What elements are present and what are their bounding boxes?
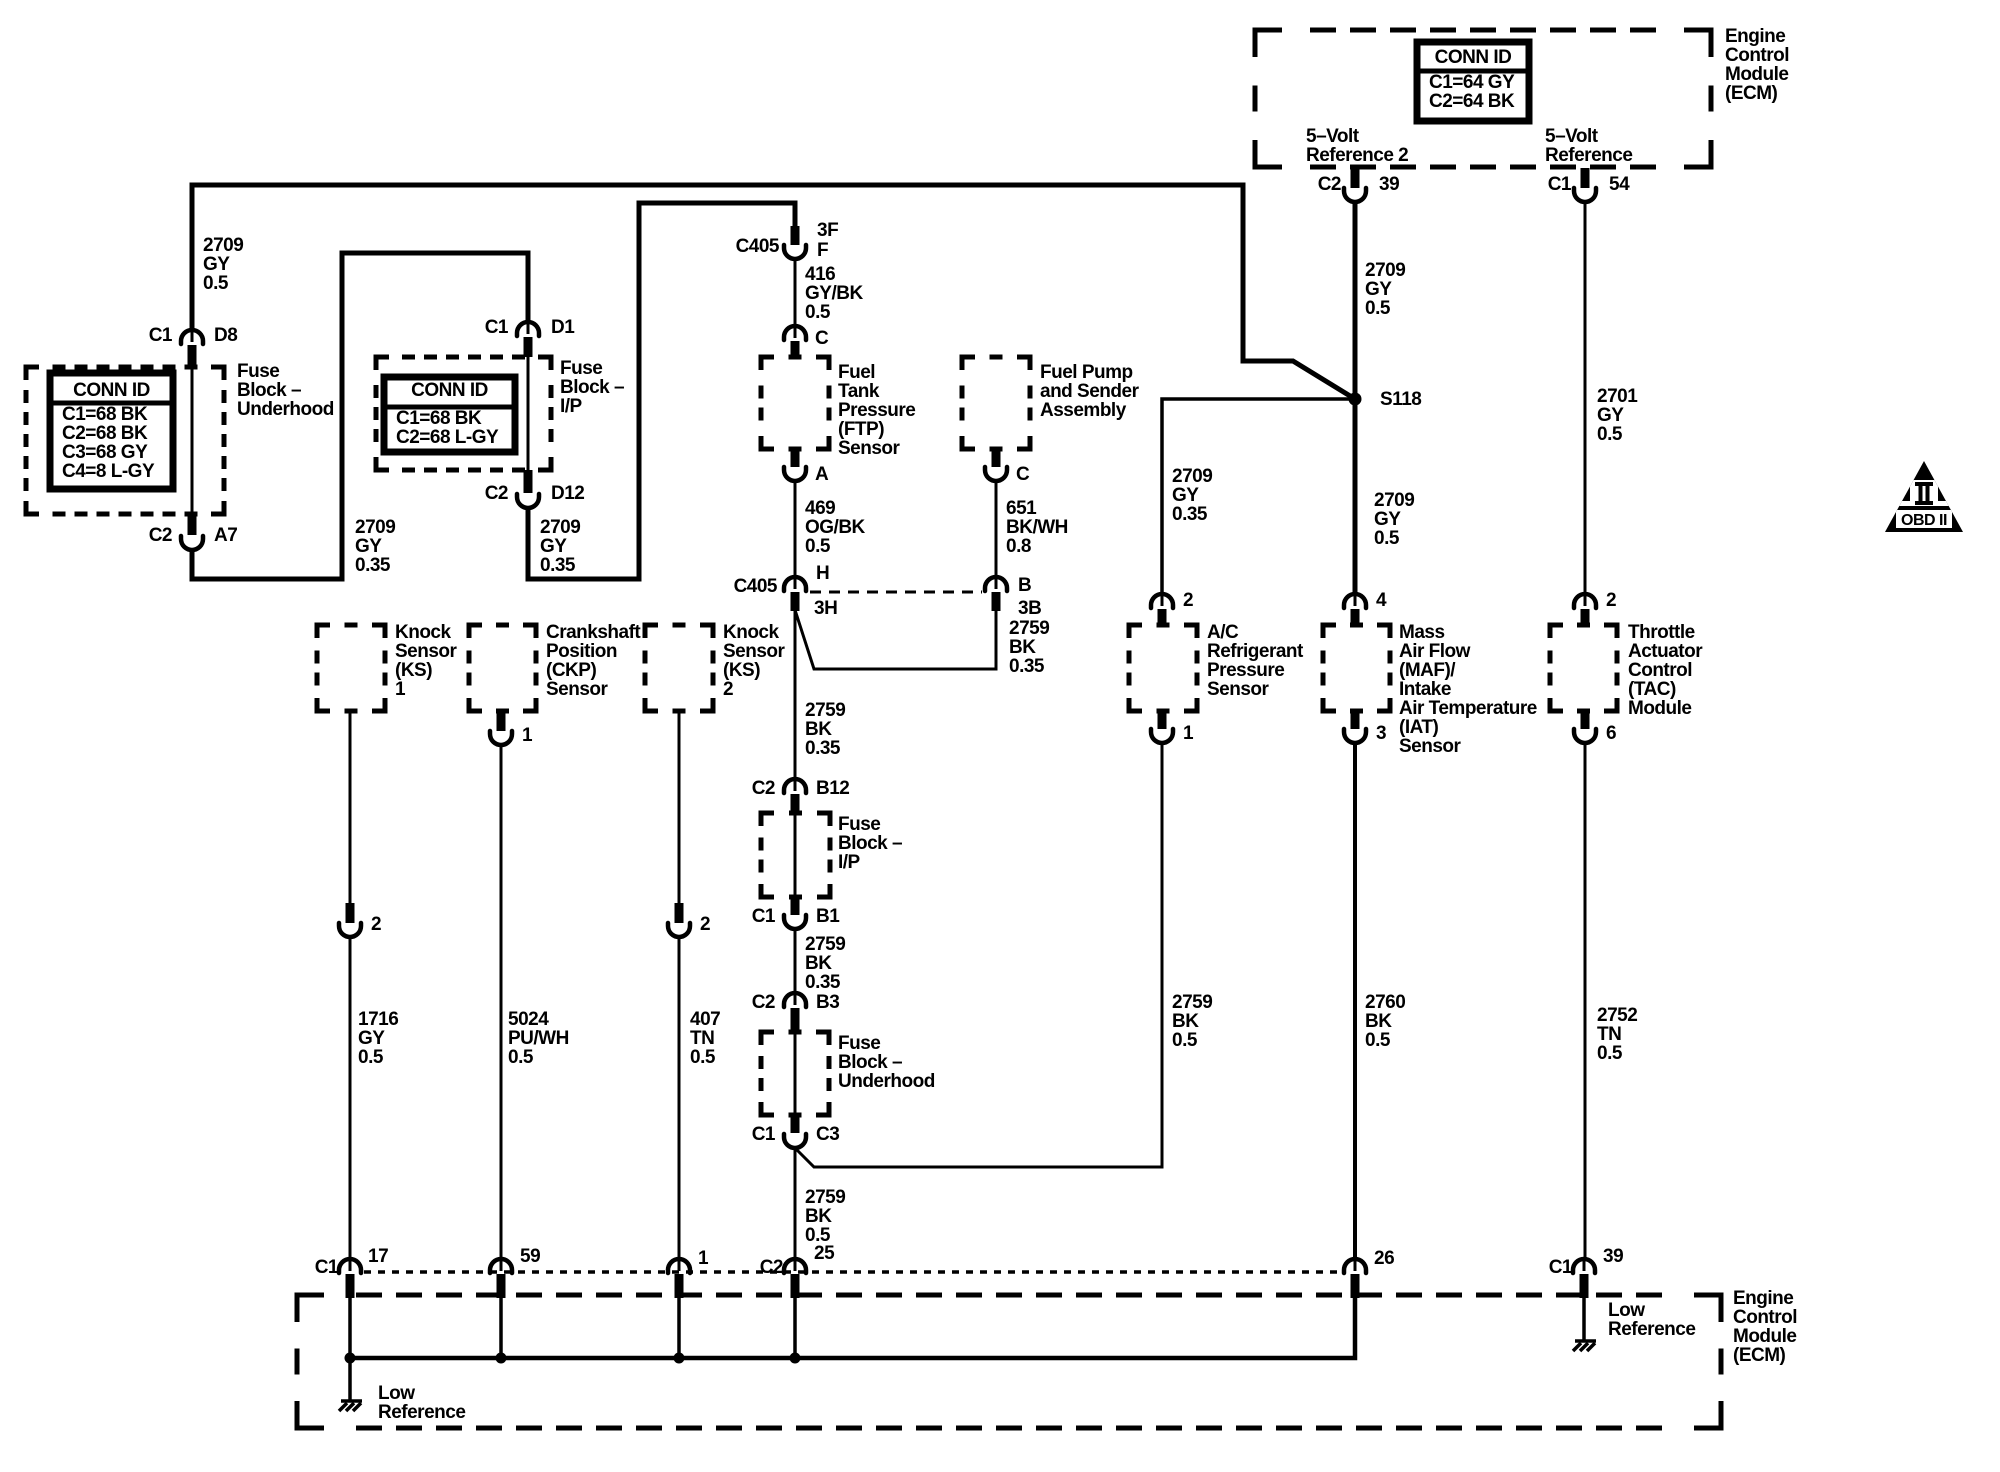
wire low reference bus inside ECM [350,1298,1355,1358]
wire through fuse block underhood B3-C3 [794,1032,797,1115]
label C2 [149,525,172,546]
label C2 [760,1257,783,1278]
svg-text:C1=64 GYC2=64 BK: C1=64 GYC2=64 BK [1429,72,1515,112]
svg-text:C2: C2 [752,992,775,1013]
label C1 [752,906,776,927]
label 4 [1376,590,1387,611]
svg-text:C1: C1 [752,1124,776,1145]
svg-text:C1: C1 [752,906,776,927]
knock sensor 2 box [645,625,713,711]
stub FTP pin A [791,449,800,467]
label 2 [371,914,381,935]
connector C1 C3 [784,1134,806,1148]
connector ECM pin 39 [1573,1258,1595,1273]
stub ECM pin 1 [675,1274,684,1298]
wire 416 GY/BK 0.5 from C405 F to FTP sensor pin C [794,259,797,328]
connector CKP pin 1 [490,731,512,745]
svg-text:1: 1 [522,725,533,746]
label B3 [816,992,839,1013]
label 651 BK/WH 0.8 [1006,498,1068,557]
junction dot pin 17 bus [345,1353,356,1364]
wire 2709 GY 0.35 from fuse block underhood C2 A7 to fuse block I/P C1 D1 [192,253,528,579]
stub fuel pump pin C [992,449,1001,467]
wire from knock sensor 2 to its connector [678,711,681,905]
svg-text:D1: D1 [551,317,575,338]
wire 469 OG/BK 0.5 from FTP sensor pin A to C405 H [794,481,797,579]
label A/C refrigerant pressure sensor [1207,622,1304,700]
svg-text:C1: C1 [315,1257,339,1278]
connector knock sensor 2 pin 2 [668,923,690,937]
connector ECM C1 pin 54 [1574,188,1596,202]
connector ECM pin 1 [668,1258,690,1273]
label 26 [1374,1248,1394,1269]
connector C405 F [784,245,806,259]
connector MAF pin 4 [1344,593,1366,608]
label MAF/IAT sensor [1399,622,1537,757]
stub C1 D8 [188,345,197,367]
stub ECM C2 39 [1351,168,1360,188]
stub C405 F [791,226,800,245]
svg-text:54: 54 [1609,174,1630,195]
svg-text:2: 2 [371,914,381,935]
connector C1 D1 [517,321,539,336]
svg-text:3: 3 [1376,723,1386,744]
label throttle actuator control module [1628,622,1703,719]
svg-text:D8: D8 [214,325,237,346]
wire 2709 GY 0.35 from splice S118 to A/C refrigerant pressure sensor pin 2 [1162,399,1355,596]
label C1 [1548,174,1572,195]
svg-text:1: 1 [698,1248,709,1269]
wire 2759 BK 0.35 from C405 H to fuse block I/P C2 B12 [794,610,797,781]
connector A/C sensor pin 1 [1151,729,1173,743]
label C3 [816,1124,839,1145]
label fuel pump and sender assembly [1040,362,1140,421]
ground low reference left [339,1401,362,1411]
connector C1 B1 [784,915,806,929]
label C [815,328,829,349]
label C2 [485,483,508,504]
label 1 [522,725,533,746]
stub ECM C1 54 [1581,168,1590,188]
label fuse block underhood left [237,361,334,420]
CONN ID table fuse block I/P [384,377,515,452]
label 2759 BK 0.5 [1172,992,1212,1051]
wire ECM pin 59 to bus [499,1298,503,1358]
svg-text:C2: C2 [760,1257,783,1278]
stub A/C sensor pin 2 [1158,609,1167,625]
ECM box top (Engine Control Module) [1255,30,1711,167]
wire ECM pin 39 to ground [1582,1298,1586,1340]
label fuse block I/P middle [838,814,902,873]
label 1 [698,1248,709,1269]
connector C2 A7 [181,536,203,550]
wire through fuse block I/P B12-B1 [794,813,797,897]
wire 651 BK/WH 0.8 from fuel pump pin C to C405 B [995,481,998,579]
stub ECM pin 59 [497,1274,506,1298]
label 2709 GY 0.35 [540,517,580,576]
svg-text:C1: C1 [149,325,173,346]
label fuse block I/P left [560,358,624,417]
CONN ID table fuse block underhood [50,373,173,489]
svg-text:C2: C2 [1318,174,1341,195]
wire ECM pin 25 to bus [793,1298,797,1358]
stub ECM pin 25 [791,1274,800,1298]
svg-text:A: A [815,464,829,485]
fuse block underhood box (left) [26,367,224,514]
label 2 [1183,590,1193,611]
label 2709 GY 0.35 [1172,466,1212,525]
label 2759 BK 0.35 [1009,618,1049,677]
ground low reference right [1573,1341,1596,1351]
label H [816,563,829,584]
fuse block I/P box (middle) [761,813,830,897]
label C1 [149,325,173,346]
label 3F [817,220,838,241]
stub C2 D12 [524,470,533,493]
wire 2709 GY 0.35 from fuse block I/P C2 D12 to C405 F [528,203,795,579]
stub TAC pin 2 [1581,609,1590,625]
label 17 [368,1246,388,1267]
splice S118 [1349,393,1362,406]
CONN ID table ECM [1417,42,1529,121]
fuel tank pressure sensor box [761,357,829,449]
label C1 [752,1124,776,1145]
label 39 [1603,1246,1623,1267]
label 5024 PU/WH 0.5 [508,1009,569,1068]
label B [1018,575,1031,596]
label 59 [520,1246,540,1267]
label 3H [814,598,837,619]
svg-text:OBD II: OBD II [1901,512,1947,529]
svg-text:25: 25 [814,1243,835,1264]
svg-text:A7: A7 [214,525,237,546]
label B12 [816,778,849,799]
label A7 [214,525,237,546]
svg-text:6: 6 [1606,723,1616,744]
connector ECM pin 25 [784,1258,806,1273]
wire through fuse block I/P D1-D12 [527,357,530,470]
label D1 [551,317,575,338]
stub MAF pin 3 [1351,711,1360,729]
label C405 [736,236,780,257]
label C1 [485,317,509,338]
svg-text:C2: C2 [485,483,508,504]
svg-text:39: 39 [1379,174,1399,195]
stub C1 C3 [791,1115,800,1133]
label 416 GY/BK 0.5 [805,264,863,323]
wire 2709 GY 0.5 from ECM C2 39 through S118 to MAF sensor pin 4 [1353,201,1358,596]
dotted ECM connector row line [364,1270,1340,1274]
svg-text:C2: C2 [752,778,775,799]
stub C2 B12 [791,794,800,813]
stub C405 H [791,592,800,611]
wire 407 TN 0.5 from knock sensor 2 pin 2 to ECM pin 1 [678,937,681,1261]
stub C2 B3 [791,1008,800,1032]
connector A/C sensor pin 2 [1151,593,1173,608]
svg-text:C1: C1 [485,317,509,338]
label A [815,464,829,485]
svg-text:2: 2 [1183,590,1193,611]
label crankshaft position sensor [546,622,641,700]
connector FTP pin A [784,467,806,481]
label 407 TN 0.5 [690,1009,720,1068]
wire 2709 GY 0.5 from fuse block underhood C1 D8 to splice S118 [192,185,1355,399]
wire ECM pin 1 to bus [677,1298,681,1358]
stub knock sensor 2 pin 2 [675,903,684,923]
connector TAC pin 2 [1574,593,1596,608]
stub knock sensor 1 pin 2 [346,903,355,923]
svg-text:C: C [1016,464,1030,485]
svg-text:Fuel Pumpand SenderAssembly: Fuel Pumpand SenderAssembly [1040,362,1140,421]
label 5-volt reference [1545,126,1632,166]
connector ECM pin 59 [490,1258,512,1273]
svg-text:F: F [817,240,828,261]
stub C1 D1 [524,337,533,357]
label 1716 GY 0.5 [358,1009,398,1068]
label 25 [814,1243,835,1264]
svg-text:C405: C405 [736,236,780,257]
label 5-volt reference 2 [1306,126,1408,166]
svg-text:C1: C1 [1549,1257,1573,1278]
label C1 [1549,1257,1573,1278]
wire jog from C405 H to C405 B [795,610,996,669]
stub C405 B [992,592,1001,611]
fuse block underhood box (middle) [761,1032,829,1115]
connector ECM C2 pin 39 [1344,188,1366,202]
stub TAC pin 6 [1581,711,1590,729]
svg-text:C1: C1 [1548,174,1572,195]
connector C1 D8 [181,329,203,344]
stub CKP pin 1 [497,711,506,731]
label 2709 GY 0.5 [1365,260,1405,319]
label low reference left [378,1383,465,1423]
label 54 [1609,174,1630,195]
svg-text:59: 59 [520,1246,540,1267]
wire 2752 TN 0.5 from TAC module pin 6 to ECM C1 39 [1584,743,1587,1261]
svg-text:3B: 3B [1018,598,1041,619]
stub C1 B1 [791,897,800,915]
stub A/C sensor pin 1 [1158,711,1167,729]
knock sensor 1 box [317,625,385,711]
label C2 [752,992,775,1013]
wire through fuse block underhood D8-A7 [191,367,194,514]
connector FTP pin C [784,325,806,340]
wire 5024 PU/WH 0.5 from CKP sensor pin 1 to ECM pin 59 [500,745,503,1261]
svg-text:4: 4 [1376,590,1387,611]
label 2760 BK 0.5 [1365,992,1405,1051]
connector ECM pin 26 [1344,1258,1366,1273]
label 39 [1379,174,1399,195]
label 3B [1018,598,1041,619]
label 2759 BK 0.35 [805,700,845,759]
label 2 [700,914,710,935]
svg-text:B1: B1 [816,906,840,927]
svg-text:CONN ID: CONN ID [411,380,488,401]
junction dot pin 1 bus [674,1353,685,1364]
dashed pair line C405 H to B [810,591,982,594]
A/C refrigerant pressure sensor box [1129,625,1197,711]
crankshaft position sensor box [469,625,536,711]
label 2 [1606,590,1616,611]
junction dot pin 25 bus [790,1353,801,1364]
label fuse block underhood middle [838,1033,935,1092]
label engine control module top [1725,26,1789,104]
connector MAF pin 3 [1344,729,1366,743]
throttle actuator control module box [1550,625,1617,711]
svg-text:D12: D12 [551,483,584,504]
svg-text:CONN ID: CONN ID [73,380,150,401]
wire 2759 BK 0.5 from C1 C3 to A/C refrigerant pressure sensor pin 1 [795,743,1162,1167]
label knock sensor 2 [723,622,786,700]
label 3 [1376,723,1386,744]
svg-text:C3: C3 [816,1124,839,1145]
label F [817,240,828,261]
label fuel tank pressure sensor [838,362,915,459]
svg-text:C1=68 BKC2=68 BKC3=68 GYC4=8 L: C1=68 BKC2=68 BKC3=68 GYC4=8 L-GY [62,404,155,482]
fuel pump and sender assembly box [962,357,1030,449]
wire 1716 GY 0.5 from knock sensor 1 pin 2 to ECM pin 17 [349,937,352,1261]
svg-text:B12: B12 [816,778,849,799]
connector TAC pin 6 [1574,729,1596,743]
label 2759 BK 0.35 [805,934,845,993]
fuse block I/P box (left) [376,357,551,470]
label C [1016,464,1030,485]
label D12 [551,483,584,504]
stub MAF pin 4 [1351,609,1360,625]
svg-text:2: 2 [700,914,710,935]
junction dot pin 59 bus [496,1353,507,1364]
MAF/IAT sensor box [1323,625,1390,711]
label C2 [1318,174,1341,195]
label 2752 TN 0.5 [1597,1005,1637,1064]
label 2709 GY 0.35 [355,517,395,576]
wire 2759 BK 0.35 from C1 B1 to C2 B3 [794,929,797,995]
wire 2701 GY 0.5 from ECM C1 54 to TAC module pin 2 [1584,201,1587,596]
svg-text:B3: B3 [816,992,839,1013]
svg-text:26: 26 [1374,1248,1394,1269]
stub FTP pin C [791,341,800,357]
label knock sensor 1 [395,622,458,700]
connector ECM pin 17 [339,1258,361,1273]
svg-text:3F: 3F [817,220,838,241]
label 2759 BK 0.5 [805,1187,845,1246]
stub ECM pin 17 [346,1274,355,1298]
ECM box bottom (Engine Control Module) [297,1295,1721,1428]
svg-text:17: 17 [368,1246,388,1267]
label D8 [214,325,237,346]
wire from knock sensor 1 to its connector [349,711,352,905]
connector C405 B [985,576,1007,591]
connector C405 H [784,576,806,591]
OBD II symbol [1885,461,1963,532]
label 2709 GY 0.5 [1374,490,1414,549]
stub ECM pin 39 [1580,1274,1589,1298]
stub C2 A7 [188,514,197,535]
connector C2 B3 [784,992,806,1007]
stub ECM pin 26 [1351,1274,1360,1298]
label C405 [734,576,778,597]
connector C2 B12 [784,778,806,793]
label B1 [816,906,840,927]
wire 2759 BK 0.5 from C1 C3 to ECM pin 25 [794,1148,797,1261]
label 6 [1606,723,1616,744]
label splice S118 [1380,389,1421,410]
wire ECM pin 17 to ground [348,1298,352,1400]
label low reference right [1608,1300,1695,1340]
svg-text:2: 2 [1606,590,1616,611]
svg-text:CONN ID: CONN ID [1435,47,1512,68]
svg-text:3H: 3H [814,598,837,619]
connector C2 D12 [517,494,539,508]
svg-text:C405: C405 [734,576,778,597]
connector knock sensor 1 pin 2 [339,923,361,937]
label 2709 GY 0.5 [203,235,243,294]
svg-text:S118: S118 [1380,389,1421,410]
label engine control module bottom [1733,1288,1797,1366]
label 1 [1183,723,1194,744]
svg-text:1: 1 [1183,723,1194,744]
connector fuel pump pin C [985,467,1007,481]
label 2701 GY 0.5 [1597,386,1638,445]
svg-text:39: 39 [1603,1246,1623,1267]
svg-text:C2: C2 [149,525,172,546]
svg-text:C: C [815,328,829,349]
label C1 [315,1257,339,1278]
svg-text:B: B [1018,575,1031,596]
label C2 [752,778,775,799]
label 469 OG/BK 0.5 [805,498,866,557]
svg-text:H: H [816,563,829,584]
wire 2760 BK 0.5 from MAF sensor pin 3 to ECM pin 26 [1353,743,1357,1261]
